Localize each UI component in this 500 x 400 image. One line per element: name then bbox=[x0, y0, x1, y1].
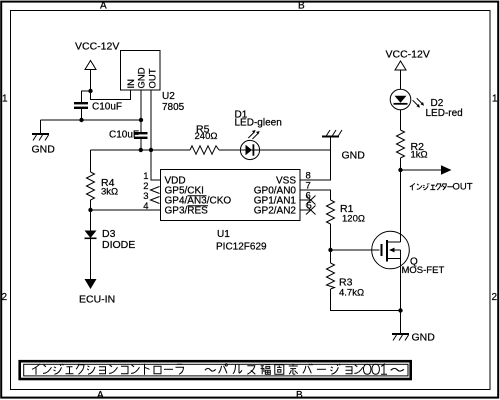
svg-text:LED-gleen: LED-gleen bbox=[235, 118, 282, 129]
svg-text:120Ω: 120Ω bbox=[342, 214, 365, 225]
svg-text:U1: U1 bbox=[217, 229, 230, 240]
svg-text:2: 2 bbox=[492, 292, 498, 303]
svg-text:3kΩ: 3kΩ bbox=[101, 187, 118, 198]
svg-text:1: 1 bbox=[2, 94, 8, 105]
svg-text:GP3/RES: GP3/RES bbox=[165, 206, 209, 217]
svg-text:GND: GND bbox=[137, 67, 148, 88]
svg-text:IN: IN bbox=[126, 79, 137, 89]
svg-text:A: A bbox=[97, 390, 104, 400]
svg-text:A: A bbox=[100, 1, 107, 12]
svg-text:GND: GND bbox=[32, 144, 56, 156]
svg-text:PIC12F629: PIC12F629 bbox=[216, 242, 267, 253]
svg-text:C10uF: C10uF bbox=[109, 130, 139, 141]
svg-text:B: B bbox=[298, 1, 305, 12]
svg-text:1kΩ: 1kΩ bbox=[411, 150, 428, 161]
svg-text:GP2/AN2: GP2/AN2 bbox=[254, 206, 297, 217]
svg-text:LED-red: LED-red bbox=[426, 108, 463, 119]
svg-text:B: B bbox=[296, 390, 303, 400]
svg-text:GND: GND bbox=[342, 150, 366, 162]
svg-text:U2: U2 bbox=[162, 91, 175, 102]
svg-text:VCC-12V: VCC-12V bbox=[75, 41, 119, 53]
svg-text:240Ω: 240Ω bbox=[195, 131, 218, 142]
svg-text:2: 2 bbox=[2, 292, 8, 303]
svg-text:7805: 7805 bbox=[162, 102, 185, 113]
svg-text:OUT: OUT bbox=[453, 182, 473, 193]
svg-text:1: 1 bbox=[492, 94, 498, 105]
svg-text:MOS-FET: MOS-FET bbox=[402, 265, 445, 276]
svg-text:C10uF: C10uF bbox=[92, 102, 122, 113]
svg-text:OUT: OUT bbox=[148, 68, 159, 88]
svg-text:GND: GND bbox=[412, 332, 436, 344]
svg-text:4.7kΩ: 4.7kΩ bbox=[339, 288, 364, 299]
svg-text:ECU-IN: ECU-IN bbox=[79, 294, 115, 306]
svg-text:DIODE: DIODE bbox=[102, 239, 135, 251]
svg-text:VCC-12V: VCC-12V bbox=[386, 49, 430, 61]
